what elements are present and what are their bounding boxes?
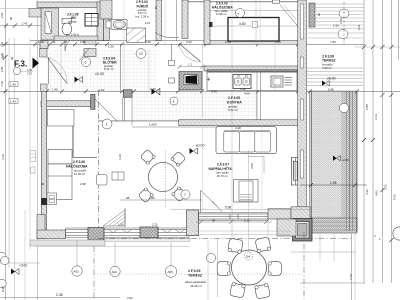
wall: top wall over WC xyxy=(37,2,103,8)
dining dim line xyxy=(120,199,202,201)
left dimension line B xyxy=(8,38,10,268)
svg-text:3.00: 3.00 xyxy=(250,163,254,169)
terrace bubble xyxy=(339,103,348,112)
svg-text:11.96 m²: 11.96 m² xyxy=(216,12,227,16)
svg-text:12.36 m²: 12.36 m² xyxy=(74,172,85,176)
WC toilet bowl xyxy=(62,23,72,35)
svg-text:+3.00: +3.00 xyxy=(19,263,27,267)
sink bowls xyxy=(235,78,241,85)
wardrobe halo2 xyxy=(48,110,75,127)
svg-text:3.13: 3.13 xyxy=(374,114,378,120)
svg-text:5.98: 5.98 xyxy=(328,87,334,91)
kitchen door bubble xyxy=(170,97,178,105)
shower diagonals xyxy=(127,28,146,42)
wall: bath left top block xyxy=(100,0,112,19)
window A3 glazing xyxy=(158,230,189,236)
svg-text:1.2: 1.2 xyxy=(188,63,192,67)
right wall pier top xyxy=(309,3,315,27)
right dim line 1 xyxy=(363,0,365,283)
kitchen cabinet lines xyxy=(256,71,258,121)
wall: corridor top segment xyxy=(204,41,300,45)
terrace door swing xyxy=(200,190,202,213)
wall: bath left wall lower xyxy=(104,19,110,41)
svg-text:J04: J04 xyxy=(246,254,251,258)
sliding door glazing xyxy=(199,214,269,219)
kitchen counter outline xyxy=(207,70,297,91)
thin lines below sliding door xyxy=(195,230,290,232)
south wall lower-left L vertical xyxy=(37,215,45,239)
right dim line 4 xyxy=(391,0,393,283)
right wall window slot 1 xyxy=(300,4,303,39)
witness verticals living xyxy=(202,126,204,213)
svg-text:5.41: 5.41 xyxy=(393,194,397,200)
svg-text:1.60: 1.60 xyxy=(149,196,155,200)
bedroom bubble xyxy=(236,9,245,18)
svg-text:±0.00: ±0.00 xyxy=(196,144,205,148)
svg-text:7.60: 7.60 xyxy=(330,40,336,44)
svg-text:1.40: 1.40 xyxy=(38,40,44,44)
svg-text:2.F.3.07: 2.F.3.07 xyxy=(217,162,229,166)
svg-text:±0.00: ±0.00 xyxy=(95,72,104,76)
svg-text:1.30: 1.30 xyxy=(150,87,156,91)
radiator small xyxy=(97,175,108,186)
hall bubble xyxy=(81,57,90,66)
dashdot roof overhang xyxy=(93,246,95,300)
chain y44 ticks xyxy=(33,42,300,46)
svg-text:2.25: 2.25 xyxy=(152,222,158,226)
bath tub edge arc xyxy=(155,32,179,38)
svg-text:2.88: 2.88 xyxy=(365,104,369,110)
left wall column black xyxy=(41,198,47,205)
south wall lower-left L horizontal xyxy=(37,230,66,239)
svg-text:4.57 m²: 4.57 m² xyxy=(138,11,147,15)
wall: entry block left xyxy=(40,41,48,49)
svg-text:1.50: 1.50 xyxy=(118,222,124,226)
svg-text:bm: 2.28 m: bm: 2.28 m xyxy=(136,15,150,19)
right wall window slot 4 xyxy=(300,150,303,178)
west wall block above chain xyxy=(41,84,48,91)
sofa xyxy=(216,127,276,154)
wall seg D xyxy=(268,209,291,219)
bath door diagonal xyxy=(179,44,201,62)
right wall window slot 2 xyxy=(300,57,303,68)
svg-text:2.22: 2.22 xyxy=(186,40,192,44)
svg-text:2.98: 2.98 xyxy=(0,66,4,72)
hall door bubble xyxy=(102,119,112,129)
svg-text:1.40: 1.40 xyxy=(10,100,16,104)
right chain ticks xyxy=(362,45,394,49)
vertical line left of terrace table xyxy=(207,240,209,300)
svg-text:5.98: 5.98 xyxy=(225,206,231,210)
column at kitchen left xyxy=(124,90,133,97)
bed2 fold line xyxy=(48,175,72,177)
wall: hálószoba2 top wall xyxy=(41,101,91,107)
sliding door center marks xyxy=(230,214,238,219)
svg-text:4.10: 4.10 xyxy=(118,154,122,160)
svg-text:A02: A02 xyxy=(74,270,80,274)
deck lines top right xyxy=(308,4,364,38)
wall: left shaft block xyxy=(41,8,59,40)
svg-text:16.70 m²: 16.70 m² xyxy=(217,174,228,178)
WC sink xyxy=(85,14,98,27)
right chain horizontal connector xyxy=(355,46,400,48)
bottom right lines xyxy=(290,251,356,253)
svg-text:4.10: 4.10 xyxy=(1,154,5,160)
svg-text:greslap: greslap xyxy=(68,19,77,23)
switch boxes xyxy=(112,172,124,180)
top-left corner wall jut xyxy=(29,9,41,18)
dining chairs xyxy=(140,149,156,165)
level flag mid xyxy=(152,89,160,95)
shaft white slot xyxy=(45,12,51,34)
terrace right stipple xyxy=(310,91,358,225)
svg-text:1.50: 1.50 xyxy=(333,24,339,28)
shaft slot diagonal xyxy=(45,12,51,34)
wall: kitchen-living divider xyxy=(179,120,300,126)
dim line under sliding door xyxy=(196,221,272,223)
svg-text:1.45: 1.45 xyxy=(52,88,58,92)
chain y91 ticks xyxy=(45,89,359,93)
svg-text:1.06: 1.06 xyxy=(108,44,114,48)
misc vertical witness lines xyxy=(60,37,62,91)
F.3 bubble xyxy=(13,67,20,74)
pier crosshatch xyxy=(88,228,104,241)
svg-text:1: 1 xyxy=(106,123,108,127)
svg-text:1.98: 1.98 xyxy=(330,181,337,185)
svg-text:TERASZ: TERASZ xyxy=(188,274,203,278)
svg-text:2.70: 2.70 xyxy=(27,73,32,76)
bottom-left flag xyxy=(11,269,19,275)
wall: kitchen top wall right part xyxy=(204,66,300,71)
tv sideboard xyxy=(291,158,299,186)
wall: bedroom west wall xyxy=(204,0,210,44)
bath shower xyxy=(127,28,146,42)
wall: left main wall xyxy=(41,91,46,238)
svg-text:90: 90 xyxy=(10,56,14,60)
wall: hall top segment xyxy=(84,41,96,45)
svg-text:98: 98 xyxy=(126,196,130,200)
terrace flag2 xyxy=(333,156,340,161)
entry door diagonal xyxy=(48,58,68,84)
coffee table xyxy=(234,180,259,203)
svg-text:2.40: 2.40 xyxy=(339,18,343,24)
svg-text:6.40: 6.40 xyxy=(211,90,217,94)
right wall window slot 3 xyxy=(300,99,303,120)
shelves xyxy=(285,78,293,86)
svg-text:10: 10 xyxy=(139,52,143,56)
svg-text:3.41: 3.41 xyxy=(384,184,388,190)
faucet cross xyxy=(207,78,211,82)
hall-living door diagonal xyxy=(95,99,118,122)
dashdot section line vertical xyxy=(97,90,99,246)
terrace right stipple dark column xyxy=(341,91,356,225)
top-left short line xyxy=(0,7,37,9)
svg-text:7: 7 xyxy=(184,193,186,197)
svg-text:2.91: 2.91 xyxy=(1,54,5,60)
terrace slab edge line xyxy=(36,245,190,247)
left dimension line C xyxy=(14,38,16,300)
bedroom pier black xyxy=(209,22,213,27)
bath vanity xyxy=(111,20,127,30)
svg-text:2.F.3.06: 2.F.3.06 xyxy=(73,160,85,164)
bath basin xyxy=(113,20,125,28)
bottom line y263 xyxy=(0,262,40,264)
pier small xyxy=(140,227,158,238)
kitchen sink unit xyxy=(233,75,251,89)
chain y40.5 wall line xyxy=(30,40,300,42)
svg-text:+2.88: +2.88 xyxy=(342,158,350,162)
terrace chain y185 xyxy=(300,184,367,186)
deck bubble 2 xyxy=(338,29,348,38)
svg-text:2.43: 2.43 xyxy=(22,22,28,26)
door between hall and kitchen jambs xyxy=(169,61,175,66)
svg-text:23.96 m²: 23.96 m² xyxy=(190,284,202,288)
svg-text:8.42 m²: 8.42 m² xyxy=(228,108,238,112)
right dim line 3 xyxy=(382,0,384,283)
svg-text:2.F.3.03: 2.F.3.03 xyxy=(136,0,148,4)
boxed dims left xyxy=(9,82,18,87)
bottom chain y297 xyxy=(0,296,120,298)
svg-text:90: 90 xyxy=(41,182,45,186)
svg-text:45: 45 xyxy=(212,218,216,222)
sill strip bottom left xyxy=(30,240,105,246)
WC toilet tank xyxy=(62,18,72,23)
window A2 glazing xyxy=(104,230,143,236)
deck lines mid right xyxy=(306,68,363,86)
entry frame line xyxy=(48,57,50,84)
left wall tiny boxed dims xyxy=(30,151,36,162)
svg-text:4.28: 4.28 xyxy=(235,126,241,130)
svg-text:5.40: 5.40 xyxy=(240,87,246,91)
kitchen+dining tiled floor xyxy=(132,93,258,122)
witness lines to bottom bubbles xyxy=(76,240,78,266)
deck bubble 1 xyxy=(339,9,349,18)
roof diagonal top-right of bedroom xyxy=(280,5,298,26)
svg-text:3.80: 3.80 xyxy=(239,22,246,26)
stair ramp small xyxy=(103,210,125,226)
west wall block below entry xyxy=(40,49,48,57)
terrace chairs xyxy=(228,238,244,254)
right dim line 5 short xyxy=(398,0,400,60)
svg-text:3.91: 3.91 xyxy=(127,296,133,300)
wall: bath right wall xyxy=(156,0,162,41)
main dim chain y91.5 xyxy=(0,90,400,92)
svg-text:F.3.: F.3. xyxy=(14,60,27,69)
WC door arc xyxy=(65,37,79,51)
stipple plank streaks xyxy=(310,91,312,232)
svg-text:1.40: 1.40 xyxy=(10,83,16,87)
svg-text:A03: A03 xyxy=(112,270,118,274)
big terrace table xyxy=(232,250,267,285)
svg-text:2.01: 2.01 xyxy=(357,24,361,30)
svg-text:1.20: 1.20 xyxy=(99,88,105,92)
svg-text:3.18: 3.18 xyxy=(349,274,353,280)
main dim chain y44.5 xyxy=(0,43,365,45)
svg-text:5.30: 5.30 xyxy=(145,40,151,44)
right dim line 2 xyxy=(372,0,374,283)
kitchen fridge xyxy=(271,76,283,87)
witness line x37.5 xyxy=(37,0,39,300)
svg-text:HÁLÓSZOBA: HÁLÓSZOBA xyxy=(212,5,233,10)
svg-text:bm: 2.43 m: bm: 2.43 m xyxy=(66,33,79,37)
entry door arc xyxy=(48,58,68,84)
bath door arc xyxy=(179,44,201,62)
left dimension line A xyxy=(5,0,7,300)
svg-text:2.98: 2.98 xyxy=(225,40,231,44)
corner wall block above shutter xyxy=(277,219,296,236)
svg-text:7.22 m²: 7.22 m² xyxy=(322,66,332,70)
wall: WC right wall xyxy=(97,2,104,41)
bedroom beam line xyxy=(210,10,298,12)
fireplace dim line xyxy=(179,66,206,68)
svg-text:96: 96 xyxy=(52,40,56,44)
bedroom dim line xyxy=(211,25,300,27)
hall tiled floor xyxy=(47,50,157,91)
wall: right exterior wall xyxy=(298,0,307,232)
window A2 trapezoids xyxy=(108,230,132,233)
svg-text:1.693: 1.693 xyxy=(149,122,157,126)
svg-text:2.38: 2.38 xyxy=(56,293,63,297)
svg-text:2.86: 2.86 xyxy=(80,40,86,44)
bedroom bed xyxy=(228,18,279,42)
window A1 frame xyxy=(66,228,89,238)
svg-text:6: 6 xyxy=(85,61,87,65)
dim line under divider xyxy=(132,126,258,128)
dining table round xyxy=(148,162,177,191)
top chain ticks xyxy=(4,24,32,28)
top chain y25.5 xyxy=(0,25,42,27)
fireplace crosshatch block xyxy=(179,72,202,90)
sink faucets xyxy=(237,75,248,78)
bed2 pillow xyxy=(48,150,72,165)
svg-text:2.10: 2.10 xyxy=(145,21,151,25)
chain bubble xyxy=(136,49,146,59)
svg-text:90: 90 xyxy=(9,16,13,20)
svg-text:2.F.3.05: 2.F.3.05 xyxy=(228,96,240,100)
svg-text:5.10: 5.10 xyxy=(244,218,250,222)
svg-text:FÜRDŐ: FÜRDŐ xyxy=(137,4,149,9)
terrace stipple lower band xyxy=(311,218,357,233)
wall corner E xyxy=(291,207,310,224)
svg-text:90: 90 xyxy=(317,12,321,16)
svg-text:8.95: 8.95 xyxy=(1,286,5,292)
shutter box right xyxy=(293,219,313,242)
left witness line x30 xyxy=(29,38,31,250)
svg-text:2.F.3.09: 2.F.3.09 xyxy=(188,269,201,273)
svg-text:6.21 m²: 6.21 m² xyxy=(104,67,114,71)
svg-text:4.60: 4.60 xyxy=(244,92,250,96)
nightstand xyxy=(47,193,57,205)
svg-text:2.98: 2.98 xyxy=(80,182,86,186)
WC bottom wall line xyxy=(54,36,98,41)
window A1 glazing xyxy=(66,230,89,236)
svg-text:4.62: 4.62 xyxy=(365,189,369,195)
svg-text:1.90: 1.90 xyxy=(0,80,4,86)
dotted line through table xyxy=(165,150,167,207)
svg-text:A05: A05 xyxy=(168,270,174,274)
deck dashed line xyxy=(343,2,345,44)
svg-text:90: 90 xyxy=(64,40,68,44)
svg-text:1.50: 1.50 xyxy=(275,40,281,44)
wall: WC door side block xyxy=(84,49,96,57)
dims above sliding door xyxy=(170,209,310,211)
bed2 body xyxy=(48,164,72,200)
partition bottom line xyxy=(73,157,97,159)
svg-text:4.02: 4.02 xyxy=(375,190,379,196)
svg-text:28.00: 28.00 xyxy=(327,77,336,81)
bedroom top line xyxy=(188,1,300,3)
glass partition line xyxy=(72,124,74,158)
wall: bedroom left wall xyxy=(182,0,188,39)
bottom bubbles xyxy=(72,266,82,276)
WC sink grid xyxy=(85,14,98,27)
counter back dark strip xyxy=(207,70,297,72)
svg-text:2.61: 2.61 xyxy=(0,41,4,47)
dining floor bottom line xyxy=(98,120,178,122)
svg-text:2.91: 2.91 xyxy=(0,12,4,18)
pier mid xyxy=(187,210,199,236)
WC door swing small xyxy=(80,49,90,61)
